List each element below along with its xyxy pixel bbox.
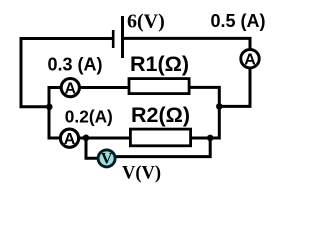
ammeter A2 (0.3A) — [61, 79, 79, 98]
voltmeter V — [98, 150, 115, 168]
ammeter A3 (0.2A) — [60, 129, 78, 148]
svg-text:0.3 (A): 0.3 (A) — [48, 55, 103, 75]
resistor R1 — [129, 79, 189, 94]
svg-text:A: A — [244, 51, 256, 68]
junction dot voltmeter right tap — [207, 135, 214, 142]
wire top-left segment, left rail and stub to left node — [21, 39, 113, 107]
svg-text:A: A — [65, 80, 77, 97]
junction dot left node — [46, 104, 53, 111]
wire top-right from battery to ammeter A1 — [123, 38, 251, 50]
wire ammeter A3 to R2 — [79, 137, 132, 140]
wire branch from left node up to ammeter A2 (0.3A) — [49, 88, 61, 107]
svg-text:R2(Ω): R2(Ω) — [131, 103, 190, 127]
svg-text:0.5 (A): 0.5 (A) — [211, 11, 266, 31]
junction dot voltmeter left tap — [83, 135, 90, 142]
wire below ammeter A1 down then left to right rail — [219, 68, 250, 107]
wire voltmeter right lead along bottom and up to node — [116, 138, 210, 157]
battery B1 short plate — [112, 30, 115, 48]
junction dot right node to ammeter A1 — [216, 103, 223, 110]
svg-text:R1(Ω): R1(Ω) — [130, 52, 189, 76]
svg-text:V(V): V(V) — [122, 164, 161, 184]
wire voltmeter left lead — [86, 138, 98, 158]
svg-text:V: V — [101, 151, 113, 168]
battery B1 long plate — [121, 16, 124, 58]
resistor R2 — [130, 129, 190, 146]
wire right rail with R1 and R2 output stubs — [190, 87, 219, 138]
svg-text:6(V): 6(V) — [127, 10, 165, 32]
wire branch from left node down to ammeter A3 (0.2A) — [49, 107, 60, 138]
wire ammeter A2 to R1 — [80, 86, 131, 89]
ammeter A1 (0.5A) — [241, 50, 259, 69]
svg-text:A: A — [64, 131, 76, 148]
svg-text:0.2(A): 0.2(A) — [65, 107, 113, 127]
